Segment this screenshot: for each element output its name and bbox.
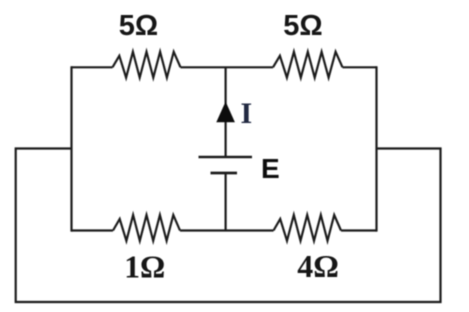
resistor 5ohm top-left: [113, 52, 181, 78]
wire bottom-right segment: [341, 229, 377, 231]
battery E negative plate: [211, 172, 238, 175]
wire center vertical lower: [225, 174, 227, 231]
wire bottom-left segment: [72, 229, 114, 231]
wire top-left segment: [72, 66, 113, 68]
resistor 4ohm bottom-right: [274, 215, 342, 241]
battery E positive plate: [199, 156, 253, 158]
current arrow I: [216, 102, 235, 123]
svg-text:4Ω: 4Ω: [297, 248, 339, 284]
svg-text:1Ω: 1Ω: [124, 250, 165, 285]
svg-text:I: I: [241, 97, 253, 130]
resistor 1ohm bottom-left: [113, 215, 180, 241]
wire right vertical: [375, 66, 377, 231]
svg-text:5Ω: 5Ω: [119, 10, 158, 42]
svg-text:E: E: [261, 153, 280, 184]
wire center vertical upper: [225, 67, 227, 156]
wire left vertical: [70, 66, 72, 231]
wire top-middle segment: [181, 66, 274, 68]
wire top-right segment: [343, 66, 377, 68]
wire outer loop: [16, 149, 441, 303]
resistor 5ohm top-right: [273, 52, 343, 78]
svg-text:5Ω: 5Ω: [283, 10, 322, 42]
wire bottom-middle segment: [180, 229, 274, 231]
